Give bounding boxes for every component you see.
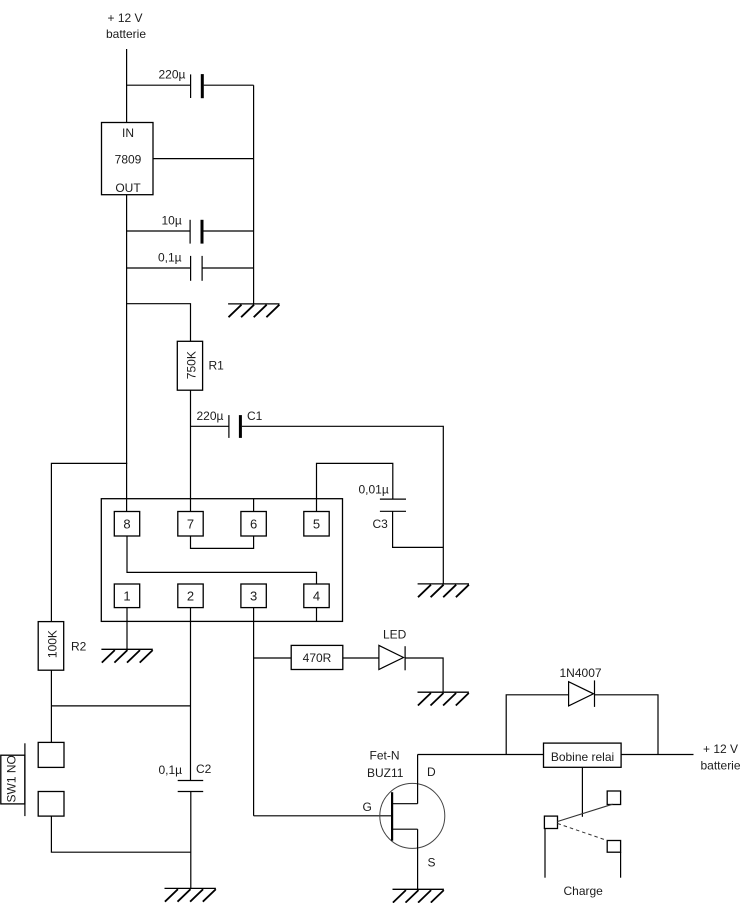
- IC U1 555 outline: [101, 499, 342, 622]
- diode D1 1N4007: [560, 666, 602, 707]
- svg-text:batterie: batterie: [106, 27, 146, 41]
- svg-text:7809: 7809: [115, 152, 142, 166]
- wire pin 2 down to capacitor C2: [190, 608, 192, 781]
- svg-text:220µ: 220µ: [197, 409, 224, 423]
- wire IC pin 5 riser: [317, 463, 393, 511]
- capacitor C3 0,01µ: [359, 483, 407, 531]
- svg-text:Charge: Charge: [564, 884, 604, 898]
- svg-text:BUZ11: BUZ11: [367, 766, 404, 780]
- wire gate line pin 3 to FET: [254, 815, 392, 817]
- node +12V batterie (top label): [106, 11, 146, 41]
- wire link pin 8 to pin 4: [127, 536, 317, 584]
- wire pin 6 stub to IC edge: [253, 499, 255, 512]
- wire pin 3 branch to 470R: [254, 657, 292, 659]
- svg-text:750K: 750K: [185, 351, 199, 379]
- svg-text:1: 1: [123, 589, 130, 604]
- svg-text:4: 4: [313, 589, 320, 604]
- svg-text:IN: IN: [122, 126, 134, 140]
- wire battery to capacitor 220µ: [127, 84, 190, 86]
- pin 7: [178, 512, 203, 537]
- svg-text:OUT: OUT: [115, 181, 141, 195]
- wire link pin 7 to pin 6: [191, 536, 254, 548]
- relay contact NC: [607, 791, 620, 805]
- wire 7809 ground pin to right rail: [153, 158, 254, 160]
- wire relay coil to +12V battery: [621, 754, 693, 756]
- wire capacitor 10µ to right rail: [204, 230, 254, 232]
- svg-text:0,01µ: 0,01µ: [359, 483, 389, 497]
- wire LED to ground: [405, 658, 443, 692]
- svg-text:7: 7: [187, 516, 194, 531]
- LED D2: [379, 628, 407, 671]
- svg-text:0,1µ: 0,1µ: [158, 251, 182, 265]
- wire capacitor C1 to ground rail: [242, 426, 443, 584]
- svg-text:LED: LED: [383, 628, 407, 642]
- svg-text:100K: 100K: [46, 630, 60, 658]
- capacitor 0,1µ decoupling: [158, 251, 202, 281]
- wire FET drain up to main node: [417, 755, 419, 804]
- resistor R2 100K: [38, 622, 86, 671]
- wire NO contact to load: [620, 852, 622, 878]
- pin 3: [241, 584, 266, 608]
- capacitor 10µ output filter: [162, 214, 203, 244]
- svg-text:batterie: batterie: [701, 759, 741, 773]
- svg-text:C3: C3: [373, 517, 389, 531]
- wire FET source to ground: [417, 829, 419, 889]
- svg-text:R2: R2: [71, 639, 87, 653]
- node +12V batterie (right label): [701, 742, 741, 773]
- capacitor 220µ input filter: [159, 68, 203, 99]
- wire R2/switch junction to capacitor C2: [51, 705, 190, 707]
- wire pin7 node to capacitor C1: [191, 425, 229, 427]
- svg-text:6: 6: [250, 516, 257, 531]
- ground (right rail): [228, 304, 279, 317]
- svg-text:1N4007: 1N4007: [560, 666, 602, 680]
- svg-text:3: 3: [250, 589, 257, 604]
- ground (C1 and C3): [418, 584, 469, 597]
- svg-text:220µ: 220µ: [159, 68, 186, 82]
- svg-text:SW1 NO: SW1 NO: [5, 755, 19, 802]
- svg-text:470R: 470R: [303, 651, 332, 665]
- node Charge (load label): [564, 884, 604, 898]
- pin 2: [178, 584, 203, 608]
- wire battery rail down to regulator IN: [126, 49, 128, 123]
- wire pin 1 to ground: [126, 608, 128, 650]
- pin 1: [114, 584, 139, 608]
- resistor R1 750K: [177, 341, 224, 390]
- wire OUT to capacitor 10µ: [127, 230, 190, 232]
- switch SW1 NO pushbutton: [1, 742, 64, 816]
- svg-text:5: 5: [313, 516, 320, 531]
- wire capacitor C2 to ground: [190, 792, 192, 889]
- pin 4: [304, 584, 329, 608]
- resistor 470R: [291, 645, 343, 669]
- wire branch to R2: [51, 463, 127, 621]
- relay contact NO: [607, 841, 620, 853]
- svg-text:S: S: [428, 856, 436, 870]
- wire pin 3 down to FET gate: [253, 608, 255, 816]
- pin 6: [241, 512, 266, 537]
- relay armature travel (dashed): [558, 824, 608, 841]
- wire drain node to relay coil: [418, 754, 544, 756]
- voltage regulator U2 7809: [102, 123, 154, 195]
- wire rail branch to R1: [127, 304, 191, 342]
- transistor Q1 Fet-N BUZ11: [363, 749, 445, 870]
- wire capacitor 0,1µ to right rail: [202, 267, 254, 269]
- relay contact common: [544, 816, 557, 828]
- wire relay coil actuator: [581, 767, 583, 817]
- svg-text:+ 12 V: + 12 V: [107, 11, 142, 25]
- pin 5: [304, 512, 329, 537]
- ground (pin 1): [101, 649, 152, 662]
- wire 7809 OUT down to IC pin 8: [126, 195, 128, 512]
- svg-text:2: 2: [187, 589, 194, 604]
- wire 470R to LED: [343, 657, 379, 659]
- svg-text:R1: R1: [209, 359, 225, 373]
- svg-text:Bobine relai: Bobine relai: [551, 750, 614, 764]
- relay coil Bobine relai: [544, 743, 622, 767]
- wire switch bottom to C2 ground node: [51, 816, 190, 852]
- svg-text:C1: C1: [247, 409, 263, 423]
- svg-text:10µ: 10µ: [162, 214, 182, 228]
- wire R2 bottom to switch: [50, 670, 52, 742]
- capacitor C2 0,1µ: [159, 762, 212, 792]
- capacitor C1 220µ: [197, 409, 263, 438]
- ground (C2): [165, 888, 216, 901]
- svg-text:Fet-N: Fet-N: [370, 749, 400, 763]
- svg-text:D: D: [427, 765, 436, 779]
- svg-text:0,1µ: 0,1µ: [159, 763, 183, 777]
- svg-text:G: G: [363, 800, 372, 814]
- ground (LED): [418, 692, 469, 705]
- relay armature (solid): [558, 804, 613, 821]
- pin 8: [114, 512, 139, 537]
- wire diode left leg: [506, 695, 568, 755]
- svg-text:C2: C2: [196, 762, 212, 776]
- svg-text:+ 12 V: + 12 V: [703, 742, 738, 756]
- wire R1 bottom down to IC pin 7: [190, 390, 192, 511]
- wire diode right leg: [595, 695, 659, 755]
- wire pin 4 stub to IC edge: [316, 608, 318, 622]
- wire OUT to capacitor 0,1µ: [127, 267, 191, 269]
- wire capacitor C3 to ground rail: [393, 511, 444, 547]
- wire right ground rail: [253, 85, 255, 304]
- wire capacitor 220µ to right rail: [204, 84, 254, 86]
- ground (FET source): [393, 889, 444, 902]
- wire common contact to load: [544, 829, 546, 878]
- svg-text:8: 8: [123, 516, 130, 531]
